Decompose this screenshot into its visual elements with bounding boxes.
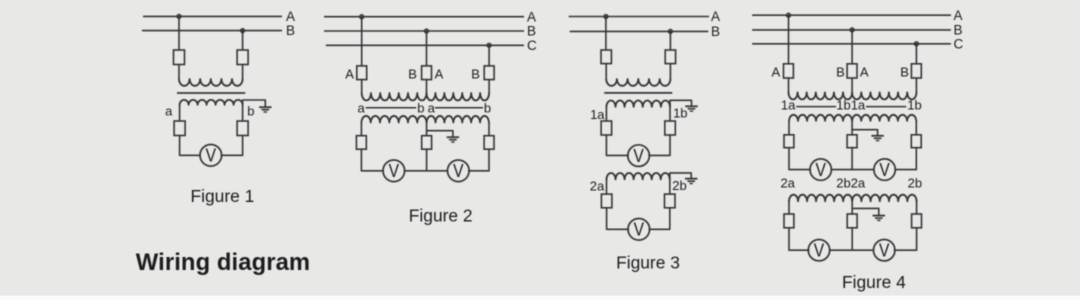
figure 4: fuse sec2 mid bbox=[847, 214, 857, 228]
svg-text:B: B bbox=[711, 24, 720, 39]
figure 4: wire bottom row2 mid-right bbox=[852, 249, 874, 251]
figure 1: ground bbox=[259, 107, 271, 112]
svg-text:a: a bbox=[428, 100, 436, 115]
figure 4: junction on bus B bbox=[850, 28, 854, 32]
svg-text:B: B bbox=[954, 23, 963, 38]
figure 2: label A left fuse bbox=[345, 66, 354, 81]
svg-text:2b2a: 2b2a bbox=[836, 176, 866, 191]
svg-text:V: V bbox=[389, 161, 399, 181]
figure 2: primary winding T1 bbox=[362, 93, 427, 100]
figure 2: ground bbox=[447, 137, 459, 142]
svg-text:Figure 1: Figure 1 bbox=[191, 186, 255, 206]
svg-text:V: V bbox=[814, 241, 824, 261]
figure 3: wire to ground 1 bbox=[670, 100, 692, 107]
figure 2: bus C bbox=[326, 38, 537, 53]
svg-text:1b: 1b bbox=[673, 106, 687, 121]
figure 4: secondary winding 2 T1 bbox=[789, 195, 852, 202]
svg-text:V: V bbox=[879, 241, 889, 261]
svg-text:2a: 2a bbox=[590, 178, 605, 193]
figure 4: wire bus B drop bbox=[851, 30, 853, 64]
figure 3: primary winding bbox=[606, 79, 670, 86]
figure 4: primary winding T2 bbox=[852, 92, 916, 99]
figure 3: wire to ground 2 bbox=[670, 173, 691, 180]
figure 4: voltmeter V1 row1 bbox=[810, 159, 831, 180]
figure 2: junction on bus B bbox=[425, 29, 429, 33]
figure 3: terminal label 2a bbox=[590, 178, 605, 193]
figure 4: wire fuse to winding 2 bbox=[915, 78, 917, 92]
svg-text:b: b bbox=[247, 104, 254, 119]
figure 3: bus B bbox=[570, 24, 720, 39]
figure 3: wire bottom left 2 bbox=[607, 208, 629, 230]
figure 4: wire bottom row1 mid bbox=[851, 148, 853, 170]
figure 2: label A right of middle fuse bbox=[435, 66, 444, 81]
figure 3: wire 2a to fuse bbox=[606, 179, 608, 194]
figure 3: wire 1b to fuse bbox=[669, 107, 671, 121]
figure 4: wire fuse to winding 1 bbox=[788, 78, 790, 92]
figure 3: fuse 2b bbox=[665, 194, 676, 208]
figure 2: wire bus A drop bbox=[361, 17, 363, 66]
svg-text:V: V bbox=[206, 146, 216, 166]
figure 2: fuse secondary mid bbox=[422, 136, 432, 150]
figure 4: label B right fuse bbox=[900, 65, 909, 80]
figure 3: ground 1 bbox=[685, 106, 697, 111]
svg-text:V: V bbox=[453, 161, 463, 181]
figure 1: wire secondary a to fuse bbox=[179, 105, 181, 121]
figure 2: bus A bbox=[324, 9, 536, 24]
figure 2: wire secondary mid bbox=[426, 123, 428, 136]
figure 1: wire bus A to fuse bbox=[178, 16, 180, 50]
svg-text:A: A bbox=[860, 65, 869, 80]
figure 2: secondary winding T2 bbox=[427, 116, 489, 123]
figure 2: label B middle fuse bbox=[408, 66, 417, 81]
figure 2: wire bottom left bbox=[361, 149, 383, 171]
svg-text:2a: 2a bbox=[780, 176, 795, 191]
svg-text:1a: 1a bbox=[590, 107, 605, 122]
svg-text:B: B bbox=[527, 24, 536, 39]
figure 2: wire secondary right bbox=[488, 123, 490, 136]
figure 3: fuse 1a bbox=[601, 121, 612, 135]
figure 2: fuse secondary left bbox=[356, 136, 366, 150]
figure 1: bus B bbox=[142, 23, 295, 38]
svg-text:A: A bbox=[286, 9, 295, 24]
figure 1: bus A bbox=[143, 9, 295, 24]
svg-text:Wiring diagram: Wiring diagram bbox=[136, 249, 310, 276]
svg-text:V: V bbox=[634, 220, 644, 240]
figure 2: core T1 bbox=[366, 107, 417, 109]
figure 2: wire secondary left bbox=[360, 123, 362, 136]
svg-text:Figure 2: Figure 2 bbox=[409, 205, 473, 225]
figure 2: label B right fuse bbox=[471, 66, 480, 81]
svg-text:b: b bbox=[484, 100, 491, 115]
figure 2: fuse phase C bbox=[484, 66, 494, 80]
figure 3: wire bus B drop bbox=[669, 31, 671, 50]
figure 3: wire 1a to fuse bbox=[605, 107, 607, 121]
figure 3: terminal label 1a bbox=[590, 107, 605, 122]
figure 1: voltmeter V bbox=[200, 145, 222, 167]
figure 1: wire secondary b to fuse bbox=[242, 100, 244, 121]
figure 2: terminal label a T1 bbox=[357, 100, 365, 115]
figure 3: secondary winding 1 bbox=[606, 100, 670, 106]
figure 1: junction on bus B bbox=[241, 29, 245, 33]
figure 3: fuse 1b bbox=[665, 121, 676, 135]
svg-text:B: B bbox=[286, 23, 295, 38]
figure 2: junction on bus A bbox=[360, 15, 364, 19]
svg-text:B: B bbox=[836, 65, 845, 80]
svg-text:Figure 3: Figure 3 bbox=[616, 253, 680, 273]
figure 4: wire sec1 right bbox=[915, 121, 917, 135]
figure 4: bus B bbox=[752, 23, 962, 38]
figure 1: wire fuse to winding right bbox=[242, 65, 244, 80]
figure 4: wire bus C drop bbox=[915, 44, 917, 64]
figure 4: fuse phase C bbox=[911, 64, 921, 78]
svg-text:A: A bbox=[345, 66, 354, 81]
figure 2: wire fuse to winding mid bbox=[426, 80, 428, 93]
figure 4: wire sec1 mid bbox=[851, 121, 853, 135]
figure 4: wire fuse to winding mid bbox=[851, 78, 853, 92]
figure 3: voltmeter V1 bbox=[628, 145, 650, 167]
figure 4: wire bottom row1 left bbox=[789, 148, 810, 170]
figure 2: core T2 bbox=[435, 107, 483, 109]
figure 4: bus C bbox=[752, 36, 963, 51]
svg-text:A: A bbox=[954, 8, 963, 23]
figure 4: secondary winding 2 T2 bbox=[852, 195, 916, 202]
svg-text:B: B bbox=[471, 66, 480, 81]
figure 4: terminal labels 2b2a bbox=[836, 176, 866, 191]
svg-text:A: A bbox=[435, 66, 444, 81]
figure 3: junction on bus A bbox=[604, 15, 608, 19]
figure 4: wire to ground 2 bbox=[852, 208, 879, 214]
figure 2: wire bottom right bbox=[469, 149, 489, 171]
figure 3: wire bottom right 2 bbox=[649, 208, 670, 230]
figure 4: fuse sec1 left bbox=[784, 135, 794, 148]
figure 4: wire sec2 left bbox=[788, 201, 790, 214]
figure 3: wire bus A drop bbox=[605, 17, 607, 51]
figure 1: core bbox=[177, 92, 245, 94]
figure 4: primary winding T1 bbox=[789, 92, 853, 99]
figure 1: terminal label b bbox=[247, 104, 254, 119]
figure 2: fuse phase B bbox=[422, 66, 432, 80]
svg-text:a: a bbox=[357, 100, 365, 115]
figure 2: wire fuse to winding 2 bbox=[488, 80, 490, 93]
figure 2: terminal label b T2 bbox=[484, 100, 491, 115]
figure 2: caption bbox=[409, 205, 473, 225]
figure 4: junction on bus C bbox=[915, 42, 919, 46]
figure 4: wire bottom row1 mid-right bbox=[852, 169, 874, 171]
svg-text:2b: 2b bbox=[672, 178, 686, 193]
figure 4: bus A bbox=[752, 8, 962, 23]
svg-text:1a: 1a bbox=[781, 98, 796, 113]
figure 4: wire sec2 right bbox=[916, 201, 918, 214]
figure 2: junction on bus C bbox=[487, 43, 491, 47]
svg-text:C: C bbox=[954, 36, 964, 51]
figure 3: bus A bbox=[569, 9, 720, 24]
figure 2: fuse phase A bbox=[357, 66, 367, 80]
figure 2: voltmeter V1 bbox=[383, 160, 405, 182]
figure 3: voltmeter V2 bbox=[628, 219, 650, 241]
figure 3: ground 2 bbox=[685, 179, 697, 184]
figure 3: wire bottom right 1 bbox=[649, 135, 670, 155]
figure 4: fuse sec2 right bbox=[912, 214, 922, 228]
figure 2: wire to ground bbox=[427, 131, 453, 137]
svg-text:B: B bbox=[900, 65, 909, 80]
figure 4: wire bottom row1 right bbox=[895, 148, 916, 170]
figure 2: voltmeter V2 bbox=[448, 160, 470, 182]
figure 4: label B middle fuse bbox=[836, 65, 845, 80]
figure 4: fuse phase B bbox=[847, 64, 857, 78]
svg-text:C: C bbox=[527, 38, 537, 53]
figure 4: wire bottom row2 left bbox=[789, 228, 809, 250]
figure 1: wire fuse to bottom right bbox=[221, 136, 242, 156]
figure 4: secondary winding 1 T2 bbox=[852, 115, 916, 121]
figure 2: secondary winding T1 bbox=[361, 116, 426, 123]
figure 2: wire bus C drop bbox=[488, 45, 490, 66]
svg-text:2b: 2b bbox=[908, 176, 922, 191]
figure 4: fuse phase A bbox=[784, 64, 794, 78]
figure 3: fuse left primary bbox=[601, 50, 611, 64]
figure 3: fuse right primary bbox=[665, 50, 675, 64]
figure 3: secondary winding 2 bbox=[607, 173, 670, 179]
figure 3: terminal label 1b bbox=[673, 106, 687, 121]
figure 1: fuse left secondary bbox=[174, 121, 185, 136]
figure 4: wire bottom row2 mid bbox=[851, 228, 853, 250]
figure 2: wire bottom mid bbox=[426, 149, 428, 171]
figure 2: terminal label b T1 bbox=[417, 100, 424, 115]
figure 4: secondary winding 1 T1 bbox=[789, 115, 852, 121]
figure 2: wire bottom mid-left bbox=[404, 170, 426, 172]
figure 3: terminal label 2b bbox=[672, 178, 686, 193]
figure 1: primary winding bbox=[179, 79, 243, 86]
figure 3: wire bottom left 1 bbox=[606, 135, 628, 155]
figure 1: wire fuse to winding left bbox=[178, 65, 180, 80]
svg-text:V: V bbox=[816, 160, 826, 180]
figure 4: wire sec1 left bbox=[788, 121, 790, 135]
figure 4: fuse sec1 right bbox=[911, 135, 921, 148]
figure 4: wire bottom row1 mid-left bbox=[831, 169, 852, 171]
figure 1: fuse right primary bbox=[237, 50, 248, 65]
figure 1: terminal label a bbox=[165, 104, 173, 119]
figure 3: caption bbox=[616, 253, 680, 273]
svg-text:a: a bbox=[165, 104, 173, 119]
title Wiring diagram bbox=[136, 249, 310, 276]
figure 1: caption bbox=[191, 186, 255, 206]
figure 3: core bbox=[604, 92, 672, 94]
figure 2: wire bottom mid-right bbox=[427, 170, 448, 172]
figure 4: terminal labels 1b1a bbox=[836, 98, 866, 113]
figure 4: ground 1 bbox=[871, 136, 883, 141]
figure 4: junction on bus A bbox=[787, 13, 791, 17]
figure 4: voltmeter V2 row2 bbox=[874, 240, 895, 261]
svg-text:b: b bbox=[417, 100, 424, 115]
svg-text:Figure 4: Figure 4 bbox=[842, 272, 906, 292]
figure 1: wire bus B to fuse bbox=[242, 31, 244, 50]
figure 4: ground 2 bbox=[873, 216, 885, 221]
figure 4: terminal label 1b T2 bbox=[907, 98, 921, 113]
figure 4: voltmeter V2 row1 bbox=[874, 159, 895, 180]
figure 1: wire to ground bbox=[243, 100, 266, 106]
figure 4: fuse sec1 mid bbox=[847, 135, 857, 148]
figure 4: label A left fuse bbox=[771, 65, 780, 80]
figure 4: core T1 bbox=[796, 106, 836, 108]
figure 4: terminal label 1a T1 bbox=[781, 98, 796, 113]
figure 3: wire 2b to fuse bbox=[669, 179, 671, 194]
figure 4: terminal label 2b bbox=[908, 176, 922, 191]
figure 2: primary winding T2 bbox=[427, 93, 490, 100]
figure 4: core T2 bbox=[866, 106, 906, 108]
figure 4: wire bottom row2 right bbox=[895, 228, 917, 250]
figure 2: fuse secondary right bbox=[484, 136, 494, 150]
svg-text:A: A bbox=[711, 9, 720, 24]
svg-text:A: A bbox=[527, 9, 536, 24]
white strip bottom bbox=[0, 296, 1080, 300]
figure 1: wire fuse to bottom left bbox=[180, 136, 201, 156]
figure 4: wire to ground 1 bbox=[852, 130, 878, 135]
figure 4: wire bus A drop bbox=[788, 15, 790, 64]
figure 1: secondary winding bbox=[180, 100, 243, 105]
figure 1: junction on bus A bbox=[177, 15, 181, 19]
figure 1: fuse right secondary bbox=[237, 121, 248, 136]
figure 2: bus B bbox=[324, 24, 536, 39]
figure 3: fuse 2a bbox=[601, 194, 612, 208]
svg-text:B: B bbox=[408, 66, 417, 81]
figure 4: terminal label 2a bbox=[780, 176, 795, 191]
figure 3: wire fuse to winding right bbox=[669, 64, 671, 79]
figure 2: wire bus B drop bbox=[426, 31, 428, 66]
figure 2: terminal label a T2 bbox=[428, 100, 436, 115]
svg-text:A: A bbox=[771, 65, 780, 80]
svg-text:V: V bbox=[633, 146, 643, 166]
figure 2: wire fuse to winding 1 bbox=[361, 80, 363, 93]
figure 1: fuse left primary bbox=[174, 50, 185, 65]
figure 4: label A right of middle fuse bbox=[860, 65, 869, 80]
figure 3: wire fuse to winding left bbox=[605, 64, 607, 79]
svg-text:V: V bbox=[879, 160, 889, 180]
svg-text:1b: 1b bbox=[907, 98, 921, 113]
figure 4: wire sec2 mid bbox=[851, 201, 853, 214]
figure 4: fuse sec2 left bbox=[784, 214, 794, 228]
figure 3: junction on bus B bbox=[669, 30, 673, 34]
figure 4: caption bbox=[842, 272, 906, 292]
svg-text:1b1a: 1b1a bbox=[836, 98, 866, 113]
figure 4: wire bottom row2 mid-left bbox=[829, 249, 852, 251]
figure 4: voltmeter V1 row2 bbox=[808, 240, 829, 261]
